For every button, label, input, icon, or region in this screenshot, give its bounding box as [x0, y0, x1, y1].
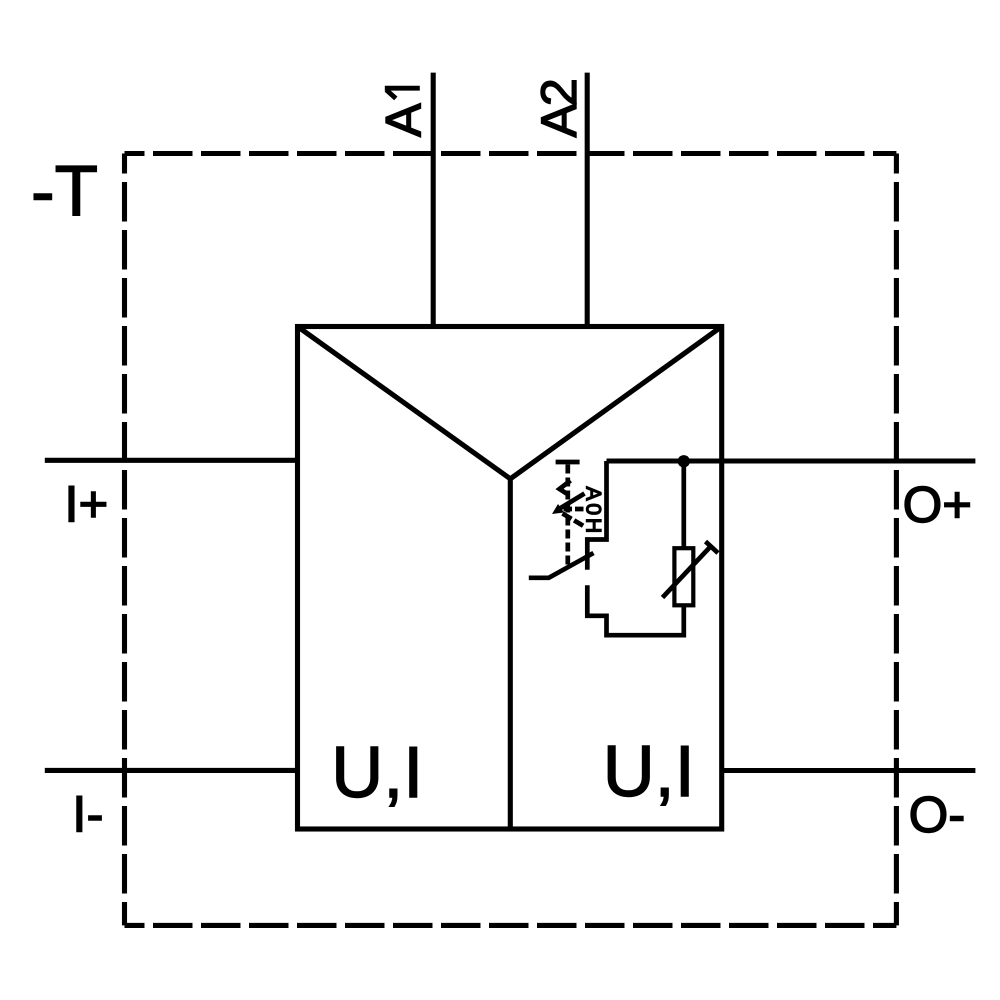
svg-text:-T: -T [31, 152, 98, 231]
svg-text:O-: O- [909, 786, 966, 843]
svg-text:U,I: U,I [603, 732, 695, 812]
svg-text:U,I: U,I [331, 733, 423, 813]
svg-text:A: A [530, 103, 587, 137]
svg-text:2: 2 [530, 78, 587, 106]
svg-text:A0H: A0H [581, 487, 604, 537]
svg-text:O+: O+ [903, 476, 972, 533]
svg-text:I+: I+ [64, 475, 108, 532]
svg-text:I-: I- [72, 786, 103, 843]
svg-text:A: A [374, 103, 431, 137]
